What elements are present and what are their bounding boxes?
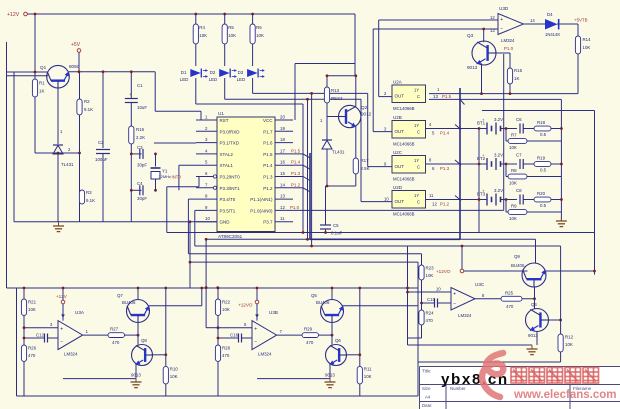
svg-text:P1.5: P1.5 [263,152,273,157]
svg-text:R22: R22 [222,300,231,305]
svg-text:18: 18 [280,137,285,142]
svg-text:P1.7: P1.7 [263,129,273,134]
svg-text:Q8: Q8 [141,338,147,343]
svg-text:R5: R5 [228,25,234,30]
svg-text:LED: LED [209,77,218,82]
svg-text:LM324: LM324 [64,352,78,357]
svg-text:R2: R2 [84,99,90,104]
svg-text:0.5: 0.5 [540,168,547,173]
svg-text:LED: LED [180,77,189,82]
svg-text:10K: 10K [583,45,591,50]
svg-text:470: 470 [426,318,434,323]
svg-text:R23: R23 [426,266,435,271]
svg-text:R21: R21 [28,300,37,305]
svg-text:MC14066B: MC14066B [393,177,415,182]
svg-text:11: 11 [280,216,285,221]
svg-text:P1.0: P1.0 [290,205,300,210]
svg-text:R26: R26 [28,346,37,351]
svg-text:10K: 10K [28,307,36,312]
svg-text:P1.6: P1.6 [263,141,273,146]
svg-text:1Y: 1Y [414,193,419,198]
svg-text:MC14066B: MC14066B [393,142,415,147]
svg-text:−: − [453,302,456,308]
svg-text:+12V: +12V [7,12,20,18]
svg-text:GND: GND [220,220,231,225]
svg-text:10K: 10K [364,374,372,379]
svg-text:MC14066B: MC14066B [393,212,415,217]
svg-text:C8: C8 [516,188,522,193]
svg-text:13: 13 [433,94,438,99]
svg-text:3.2V: 3.2V [494,117,503,122]
svg-text:10uF: 10uF [137,105,147,110]
svg-text:Q2: Q2 [361,105,368,110]
svg-text:U3C: U3C [475,282,485,287]
svg-text:AT89C2051: AT89C2051 [218,234,243,239]
svg-text:LM324: LM324 [458,313,472,318]
svg-text:TL431: TL431 [61,162,74,167]
svg-text:P1.4: P1.4 [440,131,450,136]
svg-text:OUT: OUT [395,94,405,99]
svg-text:C: C [417,130,420,135]
svg-text:10K: 10K [199,33,207,38]
svg-text:R19: R19 [537,156,546,161]
svg-text:−: − [254,339,257,345]
svg-text:P1.2: P1.2 [263,186,273,191]
svg-text:C12: C12 [36,333,45,338]
svg-text:R4: R4 [199,25,205,30]
svg-text:9012: 9012 [361,112,372,117]
svg-text:RES3: RES3 [331,96,343,101]
svg-text:1Y: 1Y [414,123,419,128]
svg-text:R15: R15 [514,68,523,73]
svg-text:+5V: +5V [71,42,81,48]
svg-text:10K: 10K [565,342,573,347]
svg-text:P1.5: P1.5 [442,94,452,99]
svg-text:C2: C2 [98,140,104,145]
svg-text:16: 16 [280,160,285,165]
svg-text:13: 13 [490,28,495,33]
svg-text:0.5: 0.5 [540,132,547,137]
svg-text:R18: R18 [537,120,546,125]
svg-text:14: 14 [530,18,535,23]
svg-text:U2C: U2C [393,150,403,155]
svg-text:R28: R28 [222,346,231,351]
svg-text:R12: R12 [565,335,574,340]
svg-text:R7: R7 [511,133,517,138]
svg-text:www.elecfans.com: www.elecfans.com [513,389,616,401]
svg-text:INT0: INT0 [172,175,182,180]
svg-text:Q6: Q6 [335,338,341,343]
svg-text:RST: RST [220,118,229,123]
svg-text:C10: C10 [427,297,436,302]
svg-text:Y1: Y1 [162,169,168,174]
svg-text:9013: 9013 [467,65,478,70]
svg-text:C5: C5 [333,223,339,228]
svg-text:OUT: OUT [395,164,405,169]
svg-text:MC14066B: MC14066B [393,106,415,111]
svg-text:20: 20 [280,115,285,120]
svg-text:XTAL1: XTAL1 [220,163,234,168]
svg-text:R10: R10 [170,367,179,372]
svg-text:BU406: BU406 [511,263,525,268]
svg-text:1Y: 1Y [414,158,419,163]
svg-text:P3.3/INT1: P3.3/INT1 [220,186,241,191]
svg-text:R14: R14 [583,37,592,42]
svg-text:470: 470 [112,340,120,345]
svg-text:3.2V: 3.2V [494,153,503,158]
svg-text:P1.0(AIN0): P1.0(AIN0) [250,208,273,213]
svg-text:30pF: 30pF [137,163,147,168]
svg-text:+: + [129,92,132,97]
svg-text:R29: R29 [304,327,313,332]
svg-text:470: 470 [306,340,314,345]
svg-text:D4: D4 [547,12,553,17]
svg-text:470: 470 [222,353,230,358]
svg-text:+12V: +12V [56,294,68,299]
svg-text:P1.1(AIN1): P1.1(AIN1) [250,197,273,202]
svg-text:P1.2: P1.2 [291,182,301,187]
svg-text:R20: R20 [537,191,546,196]
svg-text:15: 15 [280,171,285,176]
svg-text:19: 19 [280,126,285,131]
svg-text:10K: 10K [509,181,517,186]
svg-text:P1.3: P1.3 [291,171,301,176]
svg-text:10K: 10K [509,145,517,150]
svg-text:+: + [453,291,456,297]
svg-text:A4: A4 [425,395,431,400]
svg-text:U3A: U3A [75,310,85,315]
svg-text:+: + [254,326,257,332]
svg-text:U2B: U2B [393,115,402,120]
svg-text:LM324: LM324 [258,352,272,357]
svg-text:30pF: 30pF [137,196,147,201]
svg-text:10K: 10K [426,273,434,278]
svg-text:8050: 8050 [69,64,80,69]
svg-text:OUT: OUT [395,129,405,134]
svg-text:1K: 1K [39,89,44,94]
svg-text:P3.1/TXD: P3.1/TXD [220,141,240,146]
svg-text:R16: R16 [136,127,145,132]
svg-text:P3.2/INT0: P3.2/INT0 [220,175,241,180]
svg-text:10K: 10K [228,33,236,38]
svg-text:+5VTB: +5VTB [574,18,588,23]
svg-text:XTAL2: XTAL2 [220,152,234,157]
svg-text:C1: C1 [137,83,143,88]
svg-text:U2A: U2A [393,80,402,85]
svg-text:U1: U1 [218,111,224,116]
svg-text:10: 10 [436,287,441,292]
svg-text:10: 10 [205,216,210,221]
svg-text:Q9: Q9 [514,254,520,259]
svg-text:R6: R6 [256,25,262,30]
svg-text:C: C [417,165,420,170]
svg-text:Q3: Q3 [467,33,474,38]
svg-text:Q5: Q5 [311,293,317,298]
svg-text:1Y: 1Y [414,88,419,93]
svg-text:Q1: Q1 [40,65,47,70]
svg-text:R25: R25 [505,290,514,295]
svg-text:Date:: Date: [422,403,433,408]
svg-text:+: + [500,17,503,23]
svg-text:P1.5: P1.5 [291,148,301,153]
svg-text:3.2V: 3.2V [494,188,503,193]
svg-text:9.1K: 9.1K [86,198,95,203]
svg-text:P3.7: P3.7 [263,220,273,225]
svg-text:R1: R1 [39,81,45,86]
svg-text:0.5: 0.5 [540,203,547,208]
svg-text:R9: R9 [511,204,517,209]
svg-text:P1.0: P1.0 [504,46,514,51]
svg-text:11: 11 [429,193,434,198]
svg-text:P1.3: P1.3 [440,166,450,171]
svg-text:P3.0/RXD: P3.0/RXD [220,129,241,134]
svg-text:C7: C7 [516,153,522,158]
svg-text:R27: R27 [110,327,119,332]
svg-text:OUT: OUT [395,199,405,204]
svg-text:R13: R13 [331,88,340,93]
svg-text:13: 13 [280,194,285,199]
svg-text:10: 10 [384,197,389,202]
svg-text:U3D: U3D [499,6,509,11]
svg-text:P1.2: P1.2 [440,202,450,207]
svg-text:12: 12 [280,205,285,210]
svg-text:C4: C4 [137,181,143,186]
svg-text:Q4: Q4 [531,302,537,307]
svg-text:−: − [500,26,503,32]
svg-text:P1.4: P1.4 [291,160,301,165]
svg-text:C: C [417,200,420,205]
svg-text:Title: Title [422,369,431,374]
svg-text:+: + [60,326,63,332]
svg-text:2.2K: 2.2K [136,135,145,140]
svg-text:10K: 10K [509,216,517,221]
svg-text:U2D: U2D [393,185,403,190]
svg-text:R11: R11 [364,367,372,372]
svg-text:D1: D1 [181,70,187,75]
svg-text:+12VO: +12VO [238,303,253,308]
svg-text:−: − [60,339,63,345]
svg-text:R8: R8 [511,168,517,173]
svg-text:P3.4/T0: P3.4/T0 [220,197,236,202]
svg-text:U3B: U3B [269,310,278,315]
svg-text:VCC: VCC [263,118,273,123]
svg-text:D3: D3 [238,70,244,75]
svg-text:C3: C3 [137,145,143,150]
svg-text:12: 12 [432,202,437,207]
svg-text:C: C [417,94,420,99]
svg-text:TL431: TL431 [332,150,345,155]
svg-text:14: 14 [280,182,285,187]
svg-text:1N4148: 1N4148 [545,32,560,37]
svg-text:100uF: 100uF [95,157,108,162]
svg-text:P1.4: P1.4 [263,163,273,168]
svg-text:+12VO: +12VO [436,269,451,274]
svg-text:D2: D2 [210,70,216,75]
svg-text:P3.5/T1: P3.5/T1 [220,208,236,213]
svg-text:LM324: LM324 [501,38,515,43]
svg-text:C16: C16 [230,333,239,338]
svg-text:470: 470 [28,353,36,358]
svg-text:10K: 10K [170,374,178,379]
svg-text:12MHz: 12MHz [159,174,171,179]
svg-text:9.1K: 9.1K [84,107,93,112]
svg-text:R3: R3 [86,190,92,195]
svg-text:C6: C6 [516,117,522,122]
svg-text:Size: Size [422,386,431,391]
svg-text:LED: LED [237,77,246,82]
svg-text:1K: 1K [514,76,519,81]
svg-text:10K: 10K [222,307,230,312]
svg-text:10K: 10K [256,33,264,38]
svg-text:17: 17 [280,148,285,153]
svg-text:470: 470 [506,304,514,309]
svg-text:P1.3: P1.3 [263,175,273,180]
svg-text:Q7: Q7 [117,293,123,298]
svg-text:12: 12 [490,15,495,20]
svg-text:R24: R24 [426,311,435,316]
